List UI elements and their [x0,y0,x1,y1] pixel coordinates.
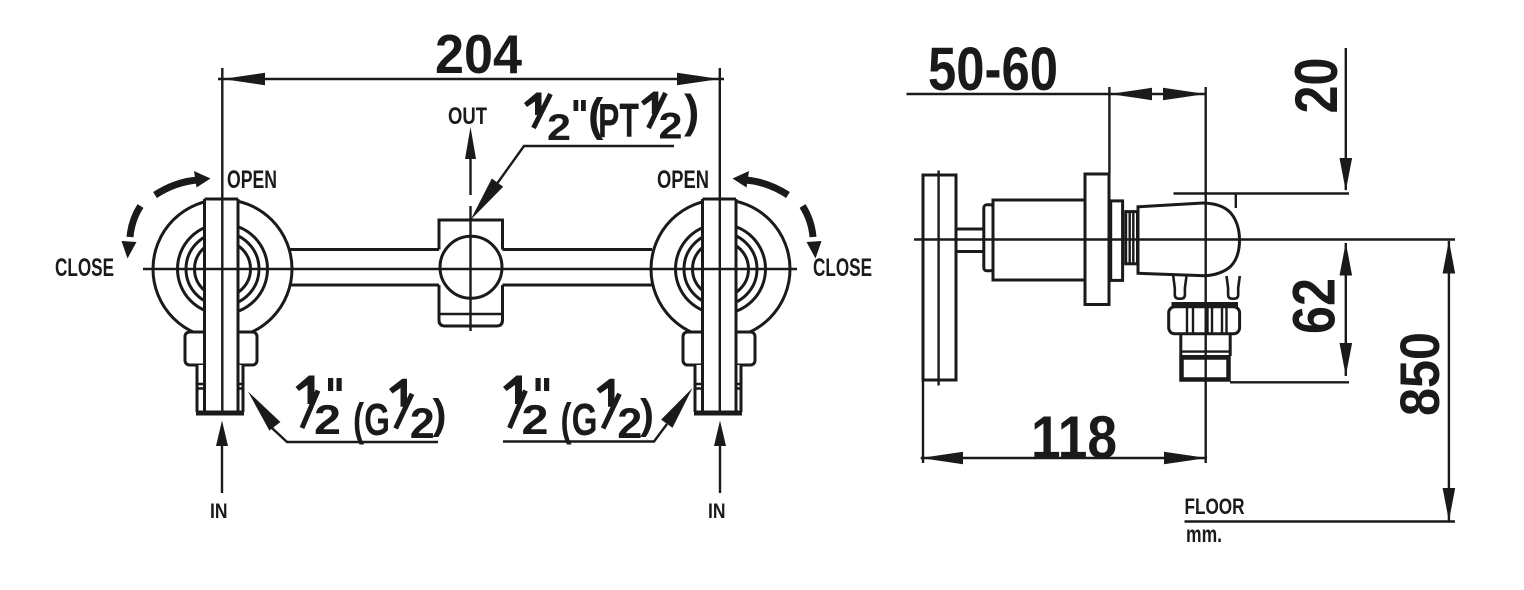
svg-text:OPEN: OPEN [657,166,709,194]
svg-text:PT: PT [598,95,639,148]
leader arrowhead right G label [661,388,692,428]
label 1/2"(G 1/2) left [296,376,447,449]
svg-text:CLOSE: CLOSE [55,254,114,282]
side view outlet thread lines [1181,350,1230,352]
side view outlet nut top bar [1172,302,1239,307]
dimension 118 left extension [922,380,924,463]
center outlet vertical centerline [469,206,471,331]
dimension 50-60 right arrowhead [1163,88,1206,100]
side view right ear lug [1227,276,1240,299]
svg-text:mm.: mm. [1186,521,1222,547]
svg-text:(G: (G [353,394,390,445]
dimension 118 right arrowhead [1164,452,1207,464]
dimension 50-60 left arrowhead [1109,88,1152,100]
dimension 118 left arrowhead [921,452,963,464]
left valve open curved arrow [155,180,198,195]
OUT arrowhead [465,127,476,159]
svg-text:2: 2 [522,396,549,443]
right valve inlet pipe [695,365,741,412]
dimension 118 line [921,457,1207,459]
left valve inner ring 1 [178,224,268,314]
right valve inner ring 3 [693,241,749,297]
svg-text:2: 2 [410,400,435,448]
side view outlet back edge stub [1235,194,1237,208]
IN arrowhead right [714,421,726,447]
svg-text:2: 2 [659,105,683,146]
svg-text:2: 2 [314,396,341,443]
left valve inlet thread lines [197,383,243,385]
side view stem [956,229,985,252]
svg-text:204: 204 [435,23,522,85]
svg-text:OUT: OUT [448,103,487,130]
dimension 850 up arrowhead [1443,241,1456,274]
connecting pipe left top edge [290,248,439,251]
svg-text:2: 2 [617,400,642,448]
dimension 62 bottom reference line [1230,381,1349,383]
IN arrow left line [221,444,223,493]
OUT arrow line [469,158,471,195]
dimension 20 line [1345,48,1347,190]
side view elbow body [1138,203,1240,276]
connecting pipe left bottom edge [290,284,439,287]
side view valve body [993,200,1085,280]
right valve body circle [651,200,790,339]
right valve handle bar [703,199,737,410]
svg-text:20: 20 [1283,58,1350,114]
side view outlet lower cylinder [1179,334,1182,356]
dimension 204 line [218,78,724,80]
svg-text:118: 118 [1031,404,1117,471]
right valve inlet pipe bottom cap [694,411,742,416]
left valve body circle [153,200,292,339]
dimension 204 left extension line [221,68,223,412]
left valve inlet pipe bottom cap [196,411,244,416]
left valve inner ring 3 [195,241,251,297]
dimension 50-60 right extension long [1204,87,1206,463]
dimension 204 left arrowhead [222,73,265,85]
side view step ring 1 [1111,201,1123,281]
dimension 850 line [1448,241,1450,521]
center outlet block inner line [439,313,503,315]
side view handle [923,175,956,380]
leader line left G label [272,428,438,442]
dimension 20 arrowhead [1340,158,1353,191]
left valve close curved arrow [130,206,141,237]
right valve open curved arrow [745,180,788,195]
leader line PT label [498,146,675,183]
dimension 50-60 line [907,93,1206,95]
svg-text:FLOOR: FLOOR [1185,494,1245,519]
IN arrow right line [719,444,721,493]
svg-text:50-60: 50-60 [928,35,1058,103]
side view left ear lug [1173,276,1186,299]
dimension 204 right arrowhead [677,73,720,85]
svg-text:IN: IN [708,500,726,523]
side view wall flange [1085,174,1109,305]
side view outlet end pipe thick [1182,358,1229,380]
side view body end cap [984,205,994,271]
center outlet circle [440,236,502,298]
svg-text:): ) [433,390,447,437]
side view outlet nut [1169,307,1240,334]
dimension 62 line [1345,243,1347,376]
right valve close curved arrow [803,206,814,237]
dimension 62 up arrowhead [1340,243,1353,276]
left valve inlet pipe [197,365,243,412]
IN arrowhead left [216,421,228,447]
svg-text:IN: IN [210,500,228,523]
svg-text:CLOSE: CLOSE [813,254,872,282]
label 1/2"(G 1/2) right [503,376,654,449]
right valve inner ring 2 [684,233,757,306]
dimension 62 down arrowhead [1340,343,1353,376]
front view horizontal centerline [143,268,797,270]
leader arrowhead left G label [248,392,280,431]
svg-text:OPEN: OPEN [227,166,277,194]
right valve lower nut [683,332,755,365]
svg-text:): ) [684,85,699,137]
svg-text:62: 62 [1281,278,1348,334]
side view top reference line (20) [1174,192,1350,194]
dimension 850 down arrowhead [1443,488,1456,521]
left valve handle bar [205,199,239,410]
leader line right G label [503,424,667,442]
dimension 50-60 left extension [1108,87,1110,174]
svg-text:(G: (G [561,394,598,445]
dimension 204 right extension line [719,68,721,412]
side view horizontal centerline [914,238,1455,240]
center outlet block outline [439,220,503,326]
side view step rings 2 [1126,212,1138,264]
left valve inner ring 2 [186,233,259,306]
connecting pipe right top edge [503,248,653,251]
leader arrowhead PT label [471,179,504,221]
left valve lower nut [185,332,257,365]
svg-text:2: 2 [547,107,571,148]
right valve inlet thread lines [695,383,741,385]
label 1/2"(PT 1/2) top [524,85,699,148]
svg-text:): ) [640,390,654,437]
right valve inner ring 1 [676,224,766,314]
floor line [1185,520,1456,523]
connecting pipe right bottom edge [503,284,653,287]
svg-text:850: 850 [1388,332,1451,416]
